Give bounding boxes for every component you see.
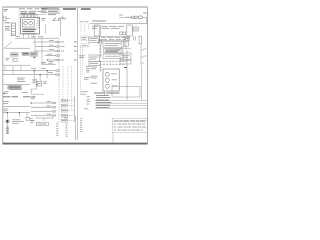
right wire list rows y96-108 xyxy=(84,97,90,109)
wire code table rules xyxy=(95,101,147,109)
bus wire y84.6 xyxy=(3,84,30,86)
small component SW5 xyxy=(26,117,33,120)
fusible link FL1 labels xyxy=(125,16,131,18)
center box B4 lower xyxy=(89,62,101,66)
vertical wire x21 xyxy=(20,66,22,71)
ground name G201 vertical xyxy=(6,127,9,133)
K3 coil circle 2 xyxy=(105,78,109,82)
wire bus y106.6 xyxy=(3,106,30,108)
label on arrow wire xyxy=(5,91,9,93)
rowA connector pair xyxy=(52,102,56,104)
wire to border xyxy=(142,16,147,18)
wire row A y103 xyxy=(31,102,52,104)
wire drop W1 xyxy=(80,24,82,34)
drop x27 xyxy=(26,113,28,117)
caption near ground row1 xyxy=(12,120,24,124)
label left small xyxy=(30,121,34,123)
label HOT AT ALL TIMES xyxy=(92,20,106,22)
wire bus row4 y55.5 xyxy=(45,55,56,57)
S3 stub xyxy=(11,57,13,63)
text row under strip xyxy=(9,89,22,91)
section header H2 xyxy=(81,8,91,10)
BX1 text xyxy=(38,123,47,125)
ground lead xyxy=(6,123,8,134)
connector C4 narrow box xyxy=(94,25,99,36)
bottom bus line y65 xyxy=(3,64,30,66)
node label A1 top-left xyxy=(4,10,8,12)
labels above bus xyxy=(31,68,53,72)
fuse list F14 row5 box xyxy=(61,119,74,122)
wire bus row2 y46.5 xyxy=(35,46,56,48)
fuse F2 box xyxy=(139,16,143,19)
wire label box WL1 gray xyxy=(11,53,19,57)
WL2 text xyxy=(23,53,28,55)
diode D1 small box xyxy=(133,27,138,31)
module M3 box lower xyxy=(120,60,131,64)
inner vertical x141.5 xyxy=(141,66,143,100)
switch S3 small box xyxy=(14,59,18,62)
center list rows y92 xyxy=(80,92,88,94)
BCM left pin column xyxy=(99,44,102,58)
wire bus y112.6 xyxy=(3,112,30,114)
net name row5 right xyxy=(61,59,65,61)
border frame right xyxy=(146,7,148,143)
inline connector C3 circles xyxy=(132,16,138,19)
connector pair row3 xyxy=(56,50,60,52)
connector pair row4 xyxy=(56,55,60,57)
BCM inner text xyxy=(105,43,121,45)
S4 text xyxy=(38,83,41,85)
border frame top xyxy=(3,6,148,8)
junction dot left rowA xyxy=(31,102,32,103)
drop x19.3 xyxy=(18,113,20,117)
BCM pin ticks row2 xyxy=(102,39,126,41)
WL1 text xyxy=(12,53,18,55)
wire code list rows xyxy=(96,95,112,107)
border frame left xyxy=(2,7,4,143)
power bus wire y23.5 xyxy=(90,23,147,25)
relay K2 box xyxy=(127,25,132,36)
vertical wire x40 drop xyxy=(39,75,41,81)
connector C2 pin boxes row xyxy=(21,15,37,17)
splice S2 gray label xyxy=(30,52,37,56)
fuse list F12 row3 box xyxy=(61,109,74,112)
wire drop x80.5 center xyxy=(80,47,82,90)
K3 internal labels xyxy=(112,74,118,86)
wire drop to power bus xyxy=(146,17,148,23)
connector pair bus2 xyxy=(56,74,60,76)
ground junction ball G1 xyxy=(6,120,9,123)
rowD connector pair xyxy=(52,115,56,117)
wire bus y38 xyxy=(15,37,58,39)
text rows right of dashed x59 y62 xyxy=(49,62,54,64)
connector pair bus1 xyxy=(56,70,60,72)
B4 text xyxy=(90,63,98,65)
K3 pin ticks left xyxy=(99,66,101,72)
center box B3 xyxy=(89,55,99,62)
K3 coil circle 3 xyxy=(105,84,109,88)
connector X1 crossed box xyxy=(98,40,102,44)
wire dashed boundary x19 xyxy=(18,10,20,36)
center dashed box DB2 xyxy=(81,44,89,47)
vertical wire x42 xyxy=(41,38,43,64)
to-harness text block xyxy=(17,78,26,82)
module M3 box upper xyxy=(120,53,131,60)
wire bus row3 y51 xyxy=(35,50,56,52)
arrow wire y93 left xyxy=(3,92,8,94)
rowC connector pair xyxy=(52,111,56,113)
wire bus row5 y60 xyxy=(48,59,56,61)
harness boundary dashed vertical x59 xyxy=(58,36,60,122)
feeder wire x71.5 xyxy=(71,66,73,109)
junction module JB text row1 xyxy=(102,25,125,27)
label left of connector C4 xyxy=(92,26,98,28)
wire row E y118 short xyxy=(37,117,54,118)
G1 ring xyxy=(5,119,9,123)
rowB connector pair xyxy=(52,106,56,108)
last list row tail x64 xyxy=(64,117,68,119)
F14 row5 text xyxy=(62,120,66,122)
F11 row2 text xyxy=(62,105,66,107)
border frame bottom xyxy=(3,143,148,145)
vertical wire x34 drop xyxy=(33,71,35,79)
ticks above bus y38 xyxy=(16,36,43,38)
fuse list F13 row4 box xyxy=(61,114,74,117)
BCM bottom text row2 xyxy=(100,63,125,65)
NB1 row2 xyxy=(114,126,146,128)
strip text xyxy=(9,86,20,88)
junction module JB text row2 xyxy=(102,27,120,29)
wire list rows x84 y77 xyxy=(84,77,90,79)
relay K1 body xyxy=(11,23,15,36)
wire K2b xyxy=(125,41,127,49)
center box B2 xyxy=(89,37,99,42)
arrowhead left xyxy=(3,93,5,95)
U1 right pin stubs xyxy=(37,19,40,28)
vertical harness label col3 xyxy=(80,119,82,132)
wire from S1 down xyxy=(59,20,61,36)
U1 bottom wire stubs xyxy=(24,34,34,38)
DB2 text xyxy=(82,44,88,46)
tick labels x143 xyxy=(144,49,147,56)
NB1 row3 xyxy=(114,129,143,131)
vertical wire x13 xyxy=(12,66,14,75)
switch S4 box xyxy=(37,81,41,86)
B3 text rows xyxy=(90,57,98,59)
relay box K3 outline xyxy=(103,69,119,91)
ground bus wire y70.6 xyxy=(3,70,56,72)
label above y104 x30 xyxy=(31,97,36,99)
text mid y92 xyxy=(22,92,28,94)
splice S2 text xyxy=(31,53,36,55)
BCM lower box text xyxy=(105,55,119,57)
section divider vertical x77 xyxy=(76,7,78,140)
F13 row4 text xyxy=(62,115,66,117)
feeder drop to bottom xyxy=(75,116,77,140)
K3 left label rows xyxy=(91,67,98,83)
NB1 header text xyxy=(114,120,147,122)
text block TL3 xyxy=(79,56,85,58)
connector C2 header rule xyxy=(20,13,47,15)
feeder wire x63 xyxy=(62,66,64,99)
wire label row3 xyxy=(49,49,54,51)
module M3 text xyxy=(122,55,130,57)
vertical harness label col1 xyxy=(56,123,58,136)
net name row2 right xyxy=(61,46,65,48)
capacitor C6 plates xyxy=(134,36,136,40)
wire bus row6 y64 xyxy=(42,63,56,65)
junction dot J1 xyxy=(34,57,35,58)
connector pair row5 xyxy=(56,59,60,61)
S4 label right xyxy=(43,82,47,84)
wire row B y107 xyxy=(31,106,52,108)
vertical bus x100 xyxy=(100,25,102,36)
connector C2 pin labels row1 xyxy=(19,8,48,10)
net name row3 right xyxy=(61,50,65,52)
connector pair row2 xyxy=(56,46,60,48)
BCM module block outline xyxy=(100,36,129,58)
feeder vertical x74.6 xyxy=(74,96,76,122)
connector pair row1 xyxy=(56,41,60,43)
connector C2 dense label bar xyxy=(21,12,36,14)
drop x44 to box xyxy=(43,118,45,121)
BCM gray title bar xyxy=(104,49,122,53)
small text x6 y58 xyxy=(6,58,10,60)
BX1 left label xyxy=(31,119,35,121)
center dashed box DB1 xyxy=(81,36,88,40)
wire drop W3 xyxy=(87,24,89,31)
indicator lamp box L1 with circles xyxy=(125,36,130,41)
diode D2 symbol cluster xyxy=(33,79,36,83)
feeder wire x68 xyxy=(67,66,69,104)
wire bus y48 xyxy=(5,47,31,49)
drop x7.4 xyxy=(6,113,8,120)
label rows under bus xyxy=(3,109,9,111)
wire label row1 xyxy=(49,40,54,42)
bus wire y74.6 xyxy=(3,74,56,76)
component box BX1 xyxy=(37,122,49,126)
terminal strip ticks x141 xyxy=(141,44,144,66)
F10 row1 text xyxy=(62,100,66,102)
instrument cluster U1 outline xyxy=(21,17,40,34)
U1 internal text rows xyxy=(22,29,36,31)
U1 light bottom row xyxy=(22,32,36,34)
note text block N1 xyxy=(41,8,60,15)
K3 caption row xyxy=(94,92,120,94)
K3 drop wire xyxy=(104,91,106,96)
DB1 text xyxy=(82,38,87,40)
relay K1 label xyxy=(5,27,10,31)
fuse list F11 row2 box xyxy=(61,104,74,107)
F12 row3 text xyxy=(62,110,66,112)
B2 text rows xyxy=(90,39,98,41)
BCM pin ticks top xyxy=(101,36,127,38)
section header H1 xyxy=(63,8,76,10)
wire row D y115.4 xyxy=(31,114,52,116)
BCM bottom text row1 xyxy=(100,60,127,62)
wire label strip gray y85 xyxy=(8,85,21,88)
vertical harness label col2 xyxy=(65,124,67,137)
C2 right side labels xyxy=(42,9,48,20)
NB1 row1 xyxy=(114,123,145,125)
arrow mark on divider top xyxy=(124,67,127,69)
label above chain xyxy=(119,14,123,16)
wire label row2 xyxy=(49,44,54,46)
gauge M2 circle xyxy=(29,21,33,25)
long divider x127 xyxy=(126,50,128,100)
text cluster right of divider y66-73 xyxy=(86,67,90,72)
wire row C y111.4 xyxy=(31,110,52,112)
vertical wire x5 xyxy=(4,66,6,71)
wire drop x82.8 center xyxy=(82,47,84,75)
wire label row4 xyxy=(47,53,52,55)
rowB label xyxy=(47,105,51,107)
wire drop labels x80-90 xyxy=(80,21,89,23)
label battery xyxy=(143,12,148,14)
wire bus row1 y42 xyxy=(33,41,56,43)
diagonal wire to bus xyxy=(5,42,13,49)
title block divider below note box xyxy=(112,132,114,143)
S1 label xyxy=(62,18,67,20)
wire stub right of U1 xyxy=(45,24,47,34)
resistor R1 narrow box xyxy=(139,36,142,44)
caption dark row1 left xyxy=(3,96,36,98)
fuse list F10 row1 box xyxy=(61,99,74,102)
wire drop W2 xyxy=(84,24,86,34)
connector C1 small box left edge xyxy=(3,17,10,20)
small connector C5 xyxy=(120,32,126,35)
D1 label xyxy=(134,28,138,30)
label 12V xyxy=(61,16,65,18)
row end ticks xyxy=(75,42,77,61)
junction dot J2 xyxy=(36,84,37,85)
gauge M1 circle xyxy=(24,21,28,25)
note box NB1 xyxy=(112,118,147,132)
connector C2 pin labels row2 xyxy=(20,10,44,12)
wire K2a xyxy=(121,41,123,48)
junction dots y112 xyxy=(7,112,20,113)
K3 coil circle 1 xyxy=(105,72,109,76)
vertical wire x47 drop xyxy=(46,71,48,78)
vertical wire x35 xyxy=(34,38,36,58)
legend box NB0 xyxy=(112,87,140,98)
rowA label xyxy=(47,101,52,103)
ignition switch S1 xyxy=(53,18,61,21)
wire from chain left xyxy=(119,16,124,18)
bottom-left caption text rows xyxy=(3,102,9,104)
BCM title text xyxy=(106,50,121,52)
net name row1 right xyxy=(61,41,65,43)
junction dot row5 xyxy=(47,59,48,60)
wire label block WL2 dark xyxy=(22,52,29,55)
rowD label xyxy=(47,113,52,115)
sheet background xyxy=(0,0,150,150)
wire K2c horizontal xyxy=(120,48,131,50)
gauge sub-box U1a xyxy=(23,20,35,27)
small text block x41 y62 xyxy=(41,62,46,64)
junction dots bus y70 xyxy=(34,70,48,71)
wire loop from S4 xyxy=(31,86,44,94)
junction dots bus y74 xyxy=(40,74,41,75)
label for fuse F1 xyxy=(5,22,11,24)
